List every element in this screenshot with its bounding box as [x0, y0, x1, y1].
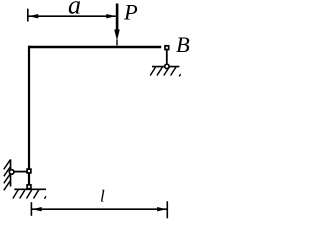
svg-text:P: P	[123, 0, 138, 24]
svg-text:a: a	[68, 0, 81, 20]
svg-text:B: B	[176, 32, 190, 57]
svg-text:l: l	[100, 187, 105, 206]
